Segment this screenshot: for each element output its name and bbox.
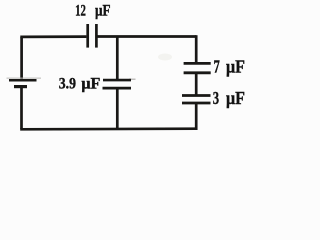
svg-text:7: 7: [214, 57, 220, 77]
wire: bottom horizontal from bottom-left to bottom-right corner: [20, 127, 196, 130]
faint scan smudge: [158, 54, 172, 61]
wire: right vertical from top-right corner down to C3: [195, 35, 198, 63]
wire: middle branch lower from C2 down to bottom wire: [116, 88, 119, 129]
capacitor C4 3uF top plate: [182, 94, 211, 97]
svg-text:μF: μF: [81, 76, 100, 93]
svg-text:μF: μF: [226, 88, 245, 108]
capacitor C4 3uF bottom plate: [182, 102, 211, 105]
wire: right vertical between C3 and C4: [195, 73, 198, 96]
capacitor C2 3.9uF bottom plate: [103, 87, 132, 90]
svg-text:μF: μF: [95, 3, 111, 20]
capacitor C2 ghost scan line: [129, 78, 136, 80]
wire: top horizontal from C1 right plate to top-right corner: [96, 35, 196, 38]
capacitor C3 7uF top plate: [184, 62, 211, 65]
wire: left vertical from top-left corner down to battery: [20, 37, 23, 80]
capacitor C3 7uF bottom plate: [184, 71, 211, 74]
svg-text:μF: μF: [226, 57, 245, 77]
capacitor C2 3.9uF top plate: [103, 79, 131, 82]
capacitor C1 12uF right plate: [95, 24, 98, 48]
svg-text:3: 3: [213, 88, 219, 108]
battery B1 short plate: [14, 85, 27, 88]
svg-text:3.9: 3.9: [59, 76, 76, 93]
wire: left vertical from battery down to bottom-left corner: [20, 87, 23, 129]
wire: top horizontal from top-left corner to C1 left plate: [20, 35, 86, 38]
wire: right vertical from C4 down to bottom-right corner: [195, 103, 198, 130]
battery B1 long plate: [9, 79, 37, 82]
battery B1 ghost scan line: [7, 77, 42, 79]
svg-text:12: 12: [75, 3, 86, 20]
wire: middle branch upper from top wire down to C2: [116, 37, 119, 81]
capacitor C1 12uF left plate: [86, 24, 89, 48]
